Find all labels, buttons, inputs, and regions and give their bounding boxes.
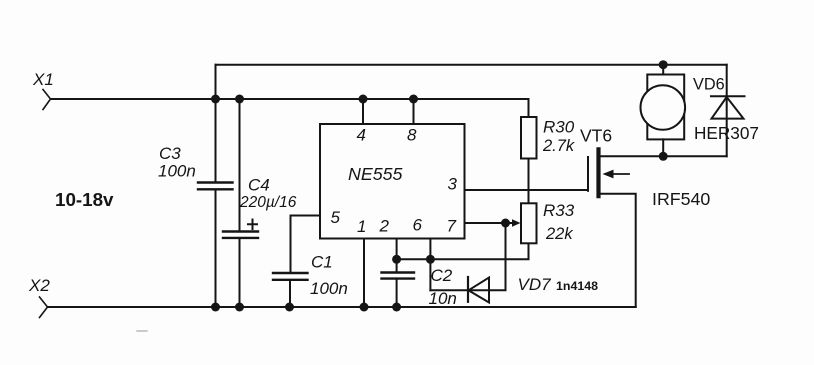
diode VD6 xyxy=(693,65,759,157)
svg-text:X1: X1 xyxy=(32,70,54,89)
svg-text:NE555: NE555 xyxy=(348,164,402,184)
source tap xyxy=(600,194,636,307)
motor M1 xyxy=(641,65,686,157)
svg-text:C1: C1 xyxy=(311,253,333,272)
pin 2 xyxy=(379,217,397,273)
svg-text:HER307: HER307 xyxy=(694,123,759,143)
svg-text:3: 3 xyxy=(448,175,458,194)
junction C1 bottom node xyxy=(285,303,294,312)
body arrow xyxy=(606,173,629,175)
svg-text:10n: 10n xyxy=(429,289,457,308)
pin 5 xyxy=(291,208,341,273)
terminal X2 xyxy=(28,276,50,318)
svg-text:100n: 100n xyxy=(310,279,348,298)
wiper arrow into R33 xyxy=(506,219,521,227)
svg-text:6: 6 xyxy=(413,216,423,235)
svg-text:1n4148: 1n4148 xyxy=(556,279,598,293)
terminal X1 xyxy=(32,70,54,110)
junction pin 2 / C2 node xyxy=(392,255,401,264)
pin 7 xyxy=(447,217,506,236)
junction pin 1 node xyxy=(360,303,369,312)
junction pin 8 node xyxy=(409,95,418,104)
svg-text:2: 2 xyxy=(379,217,390,236)
svg-text:X2: X2 xyxy=(28,276,50,295)
svg-text:100n: 100n xyxy=(158,162,196,181)
junction pin 4 node xyxy=(359,95,368,104)
svg-text:220µ/16: 220µ/16 xyxy=(239,194,297,211)
junction C4 top node xyxy=(235,95,244,104)
channel bar xyxy=(596,149,600,196)
capacitor C1 xyxy=(273,253,348,308)
IC U1 NE555 timer box xyxy=(320,124,465,239)
svg-text:R33: R33 xyxy=(543,201,575,220)
wire R30-R33 link xyxy=(528,159,530,204)
capacitor C3 xyxy=(158,99,233,307)
svg-text:1: 1 xyxy=(357,217,366,236)
pin 8 xyxy=(407,99,417,145)
pin 3 xyxy=(448,175,589,194)
pin 4 xyxy=(357,99,366,145)
junction drain node xyxy=(659,152,668,161)
resistor R30 xyxy=(521,117,575,159)
svg-text:C3: C3 xyxy=(159,144,181,163)
svg-text:5: 5 xyxy=(331,208,341,227)
svg-text:R30: R30 xyxy=(543,118,575,137)
resistor R33 (preset) xyxy=(521,201,575,243)
svg-text:C2: C2 xyxy=(431,266,453,285)
svg-text:VT6: VT6 xyxy=(580,126,612,146)
pin 6 xyxy=(413,216,431,291)
wire riser to top rail xyxy=(215,65,217,99)
junction pin 7 / wiper node xyxy=(501,219,510,228)
diode VD7 xyxy=(430,223,598,303)
svg-text:7: 7 xyxy=(447,217,457,236)
gate line xyxy=(587,157,589,191)
wire pin2-pin6-R33 link xyxy=(397,243,529,259)
wire top rail xyxy=(216,64,727,66)
junction C2 bottom node xyxy=(392,303,401,312)
svg-text:10-18v: 10-18v xyxy=(55,189,114,210)
wire R30 feed xyxy=(528,99,530,117)
wire X1 rail xyxy=(51,98,529,100)
junction pin 6 node xyxy=(426,255,435,264)
wire bottom rail xyxy=(48,306,636,308)
transistor Q1 VT6 MOSFET xyxy=(580,126,727,308)
pin 1 xyxy=(357,217,366,307)
svg-text:VD6: VD6 xyxy=(693,76,725,94)
junction C3 bottom node xyxy=(211,303,220,312)
junction C3 top node xyxy=(211,95,220,104)
svg-text:VD7: VD7 xyxy=(518,275,552,294)
junction motor top node xyxy=(659,60,668,69)
capacitor C2 xyxy=(382,266,457,308)
svg-text:8: 8 xyxy=(407,126,417,145)
svg-text:C4: C4 xyxy=(248,176,270,195)
svg-text:2.7k: 2.7k xyxy=(542,137,575,155)
capacitor C4 (polarized) xyxy=(223,99,297,307)
drain tap xyxy=(600,155,727,157)
svg-text:IRF540: IRF540 xyxy=(652,189,710,209)
svg-text:22k: 22k xyxy=(545,225,573,243)
junction C4 bottom node xyxy=(235,303,244,312)
svg-text:4: 4 xyxy=(357,126,366,145)
faint scan artifact xyxy=(137,330,147,332)
